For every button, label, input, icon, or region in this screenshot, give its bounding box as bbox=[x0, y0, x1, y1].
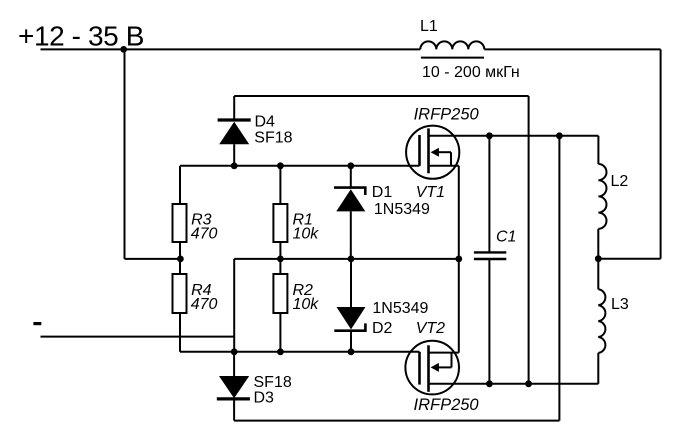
svg-text:L2: L2 bbox=[611, 173, 629, 190]
wire: center tap link bbox=[598, 258, 660, 260]
node: +V junction bbox=[120, 46, 127, 53]
wire: L3 bottom stub bbox=[597, 353, 599, 384]
wire: VT2 gate rail bbox=[180, 351, 420, 353]
wire: R3 bottom stub bbox=[179, 242, 181, 259]
wire: minus input bbox=[41, 336, 235, 338]
resistor R2 bbox=[273, 274, 287, 313]
wire: C1 top lead bbox=[488, 136, 490, 253]
node: sources to minus rail bbox=[455, 256, 462, 263]
svg-text:D2: D2 bbox=[372, 320, 393, 337]
inductor L2 bbox=[598, 164, 606, 229]
diode D4 bbox=[218, 120, 251, 144]
wire: C1 bottom lead bbox=[488, 259, 490, 384]
node: D4 anode on gate rail 1 bbox=[231, 162, 238, 169]
wire: D3 cathode stub bbox=[233, 399, 235, 421]
wire: +V top rail left segment bbox=[41, 48, 421, 50]
svg-text:D3: D3 bbox=[254, 390, 275, 407]
svg-text:SF18: SF18 bbox=[254, 374, 292, 391]
wire: sources vertical VT1 to VT2 bbox=[458, 166, 460, 353]
wire: D4 anode stub bbox=[233, 144, 235, 166]
node: C1 bottom on drain line 2 bbox=[486, 380, 493, 387]
wire: +V to R3/R4 junction bbox=[125, 258, 181, 260]
wire: D2 anode stub bbox=[350, 259, 352, 307]
wire: L3 top stub bbox=[597, 259, 599, 290]
wire: left vertical from +V bbox=[124, 49, 126, 259]
transistor VT1 bbox=[406, 126, 459, 179]
svg-text:VT1: VT1 bbox=[416, 184, 445, 201]
svg-text:D4: D4 bbox=[255, 113, 276, 130]
inductor L1 bbox=[420, 41, 484, 49]
zener D2 bbox=[334, 307, 365, 331]
node: coupling on drain line 1 bbox=[556, 132, 563, 139]
wire: R4 top stub bbox=[179, 259, 181, 274]
wire: VT1 gate rail bbox=[180, 165, 420, 167]
capacitor C1 bbox=[474, 252, 506, 259]
wire: R2 bottom stub bbox=[279, 313, 281, 352]
node: L2/L3 center tap bbox=[595, 255, 602, 262]
wire: top rail D4 to cross vertical bbox=[234, 95, 528, 97]
diode D3 bbox=[217, 376, 250, 399]
node: R1/R2 junction bbox=[277, 256, 284, 263]
svg-text:470: 470 bbox=[191, 296, 218, 313]
wire: D2 cathode stub bbox=[350, 331, 352, 352]
svg-text:VT2: VT2 bbox=[416, 320, 445, 337]
wire: minus rail horizontal bbox=[234, 258, 459, 260]
svg-text:L3: L3 bbox=[611, 296, 629, 313]
wire: D3 anode stub bbox=[233, 352, 235, 376]
node: D1/D2 junction bbox=[348, 256, 355, 263]
wire: cross vertical (top rail to VT2 drain) bbox=[528, 96, 530, 384]
svg-text:10k: 10k bbox=[293, 225, 320, 242]
wire: D4 cathode stub bbox=[233, 96, 235, 119]
svg-text:10k: 10k bbox=[293, 296, 320, 313]
resistor R4 bbox=[173, 274, 187, 313]
wire: R4 bottom stub bbox=[179, 313, 181, 352]
node: D1 cathode on gate rail 1 bbox=[347, 162, 354, 169]
wire: L2 top stub bbox=[597, 136, 599, 164]
node: D3 anode on gate rail 2 bbox=[231, 348, 238, 355]
svg-text:L1: L1 bbox=[420, 18, 438, 35]
node: cross vertical on drain line 2 bbox=[525, 380, 532, 387]
wire: L2 bottom stub bbox=[597, 229, 599, 259]
wire: right-edge vertical to center tap bbox=[660, 49, 662, 258]
wire: coupling vertical D3 to VT1 drain bbox=[558, 136, 560, 421]
transistor VT2 bbox=[405, 341, 459, 395]
svg-text:10 - 200 мкГн: 10 - 200 мкГн bbox=[422, 64, 520, 81]
node: R2 bottom on gate rail 2 bbox=[277, 348, 284, 355]
wire: VT1 drain to L2 bbox=[429, 135, 599, 137]
wire: R1 top stub bbox=[279, 166, 281, 204]
svg-text:IRFP250: IRFP250 bbox=[414, 105, 480, 123]
node: R3/R4 junction bbox=[177, 256, 184, 263]
wire: D1 cathode stub bbox=[350, 166, 352, 188]
wire: R1 bottom stub bbox=[279, 242, 281, 259]
wire: bottom rail bbox=[234, 420, 559, 422]
node: D2 cathode on gate rail 2 bbox=[348, 348, 355, 355]
resistor R3 bbox=[173, 204, 187, 242]
node: C1 top on drain line 1 bbox=[486, 132, 493, 139]
wire: R3 top stub bbox=[179, 166, 181, 204]
wire: VT2 drain to L3 bbox=[429, 383, 599, 385]
svg-text:D1: D1 bbox=[372, 184, 393, 201]
wire: R2 top stub bbox=[279, 259, 281, 274]
svg-text:470: 470 bbox=[191, 225, 218, 242]
wire: minus column vertical bbox=[233, 259, 235, 352]
node: R1 top on gate rail 1 bbox=[277, 162, 284, 169]
svg-text:1N5349: 1N5349 bbox=[372, 300, 428, 317]
inductor L3 bbox=[598, 289, 605, 353]
zener D1 bbox=[334, 188, 365, 212]
svg-text:+12 - 35 В: +12 - 35 В bbox=[18, 21, 144, 52]
svg-text:C1: C1 bbox=[496, 229, 516, 246]
wire: +V top rail right segment bbox=[484, 48, 660, 50]
node: minus terminal dash bbox=[33, 322, 41, 325]
svg-text:IRFP250: IRFP250 bbox=[414, 396, 480, 414]
svg-text:SF18: SF18 bbox=[254, 130, 292, 147]
wire: D1 anode stub bbox=[350, 211, 352, 259]
wire: L1 value underline bbox=[421, 57, 484, 59]
resistor R1 bbox=[273, 204, 287, 242]
svg-text:1N5349: 1N5349 bbox=[374, 201, 430, 218]
